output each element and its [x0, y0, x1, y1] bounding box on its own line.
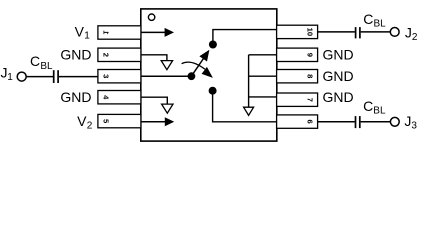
top throw node	[209, 41, 217, 49]
svg-text:2: 2	[412, 32, 418, 43]
pin 7 box	[277, 93, 318, 106]
svg-text:9: 9	[306, 53, 315, 57]
pin 3 box	[98, 70, 141, 83]
capacitor C_BL (J2)	[355, 27, 357, 38]
svg-text:V: V	[75, 23, 85, 39]
svg-text:6: 6	[306, 119, 315, 123]
svg-text:BL: BL	[40, 61, 53, 72]
svg-text:GND: GND	[60, 89, 91, 105]
svg-text:J: J	[404, 113, 411, 129]
capacitor C_BL (J3)	[355, 116, 357, 128]
pin 5 box	[98, 114, 141, 127]
bottom throw node	[209, 87, 217, 95]
pin 10 box	[277, 25, 318, 38]
wire pin6 to C_BL (J3)	[318, 121, 355, 123]
capacitor C_BL (input)	[53, 70, 55, 83]
wire C_BL to J3	[361, 121, 391, 123]
internal GND wire pin2	[141, 55, 167, 61]
svg-text:C: C	[30, 53, 40, 69]
connector J2 circle	[390, 28, 399, 37]
connector J1 circle	[17, 72, 26, 81]
svg-text:1: 1	[84, 31, 90, 42]
pin 2 box	[98, 48, 141, 61]
svg-text:BL: BL	[373, 106, 386, 117]
svg-text:GND: GND	[323, 89, 354, 105]
internal GND wire pin4	[141, 97, 167, 104]
svg-text:GND: GND	[323, 68, 354, 84]
svg-text:V: V	[77, 113, 87, 129]
svg-text:2: 2	[87, 121, 93, 132]
wire top throw to pin10	[213, 30, 277, 42]
svg-text:J: J	[405, 24, 412, 40]
toggle travel arc	[182, 62, 205, 69]
pin 9 box	[277, 48, 318, 61]
svg-text:C: C	[363, 98, 373, 114]
svg-text:2: 2	[101, 53, 110, 57]
switch arm toward top throw	[193, 59, 204, 75]
wire pin10 to C_BL (J2)	[318, 31, 355, 33]
internal GND triangle pin4	[162, 104, 173, 113]
internal GND triangle pin2	[161, 61, 172, 70]
wire C_BL to J2	[361, 31, 391, 33]
svg-text:3: 3	[101, 74, 110, 78]
pin 1 box	[98, 26, 141, 39]
internal GND bus vertical	[248, 55, 250, 107]
wire bottom throw to pin6	[213, 93, 277, 122]
svg-text:C: C	[363, 11, 373, 27]
wire J1 to C_BL	[26, 76, 53, 78]
internal GND triangle right	[244, 107, 254, 115]
svg-text:3: 3	[411, 121, 417, 132]
svg-text:7: 7	[306, 98, 315, 102]
svg-text:GND: GND	[323, 47, 354, 63]
internal GND wire pin9	[249, 54, 277, 56]
internal GND wire pin7	[249, 96, 277, 98]
internal wire pin3 to pole	[141, 75, 189, 77]
svg-text:1: 1	[7, 72, 13, 83]
pin 6 box	[277, 115, 318, 128]
svg-text:8: 8	[306, 74, 315, 78]
svg-text:BL: BL	[374, 19, 387, 30]
IC U1 body	[141, 9, 277, 141]
pin 8 box	[277, 70, 318, 83]
pin-1 indicator circle	[148, 14, 154, 20]
switch pole node	[188, 72, 196, 80]
internal GND wire pin8	[249, 75, 277, 77]
svg-text:GND: GND	[60, 47, 91, 63]
pin 4 box	[98, 91, 141, 104]
wire C_BL to pin3	[59, 76, 98, 78]
internal control arrow pin5 (V2)	[141, 121, 166, 123]
connector J3 circle	[390, 117, 399, 126]
internal control arrow pin1 (V1)	[141, 31, 166, 33]
svg-text:10: 10	[306, 28, 315, 36]
